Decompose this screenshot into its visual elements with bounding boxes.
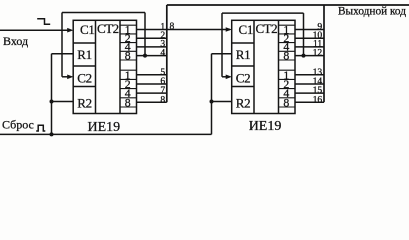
wire: reset bottom rail <box>0 133 212 135</box>
svg-text:8: 8 <box>170 21 175 32</box>
wire: DD2 output 11 <box>295 46 324 48</box>
svg-text:8: 8 <box>125 48 131 62</box>
wire: DD2 output 9 <box>295 29 324 31</box>
svg-text:ИЕ19: ИЕ19 <box>88 120 121 135</box>
bus: DD1 output collector vertical <box>166 5 168 102</box>
wire: DD1 reset vertical <box>51 54 53 135</box>
DD2 left column cell divider C1/R1 <box>232 42 254 44</box>
junction: DD2 output 12 to C2 <box>302 54 306 58</box>
wire: DD2 output 10 <box>295 37 324 39</box>
DD2 left field divider <box>253 20 255 113</box>
wire: DD2 reset vertical <box>211 54 213 135</box>
svg-text:C1: C1 <box>239 22 254 37</box>
svg-text:ИЕ19: ИЕ19 <box>249 119 282 134</box>
svg-text:Выходной код: Выходной код <box>338 5 406 17</box>
wire: into C2 DD2 <box>222 76 230 78</box>
wire: DD1 output 2 <box>137 37 167 39</box>
wire: DD1 feedback vertical right <box>144 13 146 56</box>
svg-text:8: 8 <box>283 48 289 62</box>
wire: into R1 DD1 <box>52 53 74 55</box>
svg-text:C2: C2 <box>77 71 92 86</box>
bus: DD2 output collector vertical <box>323 5 325 102</box>
svg-text:8: 8 <box>283 95 289 109</box>
DD1 left column cell divider C1/R1 <box>73 42 95 44</box>
wire: DD2 feedback vertical left to C2 <box>221 13 223 77</box>
wire: DD1 feedback vertical left to C2 <box>61 13 63 77</box>
svg-text:CT2: CT2 <box>97 21 119 36</box>
svg-text:Вход: Вход <box>3 34 28 48</box>
svg-text:R2: R2 <box>236 96 251 111</box>
wire: DD1 output 7 <box>137 92 167 94</box>
DD2 left column cell divider C2/R2 <box>232 86 254 88</box>
DD1 left column cell divider R1/C2 <box>73 65 95 67</box>
junction: DD1 output 8 to C2 <box>143 54 147 58</box>
junction: reset rail / DD1 vertical <box>50 132 54 136</box>
svg-text:CT2: CT2 <box>256 21 278 36</box>
arrowhead: C1 input DD2 <box>226 27 232 32</box>
svg-text:16: 16 <box>313 94 323 105</box>
counter DD2 box <box>232 20 295 113</box>
wire: into C2 DD1 <box>62 76 71 78</box>
wire: into R1 DD2 <box>212 53 232 55</box>
DD1 output cell grid bottom group <box>120 70 137 107</box>
wire: DD1 output 1 / carry to DD2 C1 <box>137 29 230 31</box>
wire: input Вход to C1 of DD1 <box>0 29 71 31</box>
DD2 right field divider <box>278 20 280 113</box>
svg-text:8: 8 <box>160 94 165 105</box>
wire: DD2 feedback top horizontal <box>222 12 304 14</box>
svg-text:Сброс: Сброс <box>2 118 34 132</box>
junction: DD1 R2 tap <box>50 100 54 104</box>
arrowhead: C2 input DD1 <box>67 75 73 80</box>
svg-text:R2: R2 <box>77 96 92 111</box>
DD2 output cell grid top group <box>279 25 296 60</box>
input pulse symbol (falling edge) <box>37 19 50 25</box>
wire: DD2 output 14 <box>295 83 324 85</box>
wire: DD1 output 5 <box>137 74 167 76</box>
svg-text:C2: C2 <box>236 71 251 86</box>
svg-text:R1: R1 <box>236 47 251 62</box>
wire: DD2 output 16 <box>295 101 324 103</box>
bus: output code top rail <box>167 4 409 6</box>
wire: DD1 output 4 <box>137 46 167 48</box>
arrowhead: C2 input DD2 <box>226 75 232 80</box>
DD1 weight labels top group 1,2,4,8 <box>125 22 131 62</box>
DD2 weight labels top group 1,2,4,8 <box>283 22 289 62</box>
DD1 output cell grid top group <box>120 25 137 60</box>
wire: into R2 DD2 <box>212 101 232 103</box>
reset pulse symbol <box>36 125 45 131</box>
DD1 weight labels bottom group 1,2,4,8 <box>125 68 131 110</box>
DD1 left column cell divider C2/R2 <box>73 86 95 88</box>
arrowhead: C1 input DD1 <box>67 28 73 33</box>
wire: DD1 output 8 (to C2 feedback) <box>137 55 167 57</box>
DD2 left column cell divider R1/C2 <box>232 65 254 67</box>
DD1 right field divider <box>119 20 121 113</box>
svg-text:12: 12 <box>313 47 323 58</box>
svg-text:C1: C1 <box>80 22 95 37</box>
wire: DD2 feedback vertical right <box>303 13 305 56</box>
wire: DD2 output 15 <box>295 92 324 94</box>
counter DD1 box <box>73 20 136 113</box>
DD2 weight labels bottom group 1,2,4,8 <box>283 68 289 110</box>
svg-text:8: 8 <box>125 95 131 109</box>
svg-text:4: 4 <box>160 47 165 58</box>
wire: DD1 output 8b <box>137 101 167 103</box>
wire: into R2 DD1 <box>52 101 74 103</box>
junction: DD2 R2 tap <box>210 100 214 104</box>
wire: DD2 output 13 <box>295 74 324 76</box>
DD1 left field divider <box>95 20 97 113</box>
wire: DD2 output 12 (to C2 feedback) <box>295 55 324 57</box>
wire: DD1 output 6 <box>137 83 167 85</box>
svg-text:R1: R1 <box>77 47 92 62</box>
wire: DD1 feedback top horizontal <box>62 12 145 14</box>
DD2 output cell grid bottom group <box>279 70 296 107</box>
